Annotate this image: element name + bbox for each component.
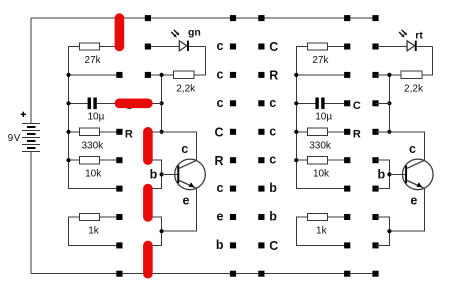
resistor R4 1k — [80, 213, 100, 220]
resistor R5 2.2k — [173, 71, 194, 78]
wire right supply rail — [296, 47, 344, 189]
svg-text:gn: gn — [188, 27, 201, 39]
jumper red row4 colA-colB — [119, 99, 147, 109]
socket pins column C2 — [258, 15, 264, 21]
svg-text:27k: 27k — [85, 55, 102, 66]
wire rail stub to pin row3 right — [296, 74, 344, 76]
jumper red col B row9-row10 — [143, 245, 153, 273]
svg-text:27k: 27k — [312, 55, 329, 66]
svg-text:c: c — [269, 124, 276, 138]
svg-text:b: b — [269, 181, 277, 195]
wire LED cathode down to 2.2k — [194, 47, 205, 75]
svg-text:c: c — [181, 142, 188, 156]
svg-text:c: c — [409, 142, 416, 156]
resistor R7 330k — [307, 128, 327, 135]
wire stub pin to chain row4 right — [376, 102, 390, 104]
svg-text:c: c — [269, 96, 276, 110]
svg-text:c: c — [217, 181, 224, 195]
socket pins column A — [116, 15, 122, 21]
wire base staircase — [148, 160, 162, 188]
resistor R8 10k — [307, 157, 327, 164]
wire stub pin to chain row5 — [148, 131, 162, 133]
node chain junctions right — [387, 73, 391, 77]
svg-text:C: C — [269, 40, 278, 54]
svg-text:330k: 330k — [81, 140, 104, 151]
node base junction right — [387, 172, 391, 176]
resistor R10 2.2k — [401, 71, 422, 78]
resistor R2 330k — [80, 128, 100, 135]
transistor Q1 — [162, 159, 206, 190]
resistor R1 27k — [80, 43, 100, 50]
svg-text:1k: 1k — [316, 226, 328, 237]
svg-text:R: R — [353, 129, 361, 141]
svg-text:10k: 10k — [85, 169, 102, 180]
resistor R6 27k — [307, 43, 327, 50]
svg-text:10k: 10k — [313, 169, 330, 180]
socket pins column B — [145, 15, 151, 21]
svg-text:e: e — [410, 194, 417, 208]
svg-text:b: b — [216, 238, 224, 252]
svg-text:e: e — [183, 194, 190, 208]
node emitter junction right — [387, 229, 391, 233]
jumper red col A row1-row2 — [115, 18, 125, 46]
wire emitter staircase — [162, 188, 197, 231]
svg-text:1k: 1k — [88, 226, 100, 237]
socket pins column D — [344, 15, 350, 21]
svg-text:9V: 9V — [8, 133, 21, 144]
resistor R9 1k — [307, 213, 327, 220]
label battery plus — [21, 112, 26, 117]
jumper red col B row7-row8 — [143, 189, 153, 217]
svg-text:C: C — [353, 100, 361, 112]
svg-text:C: C — [269, 239, 278, 253]
wire stub pin to chain row4 — [148, 102, 162, 104]
svg-text:b: b — [377, 167, 385, 181]
svg-text:c: c — [217, 39, 224, 53]
wire chain to collector right — [389, 132, 424, 161]
LED D2 emission arrows — [399, 30, 407, 38]
svg-text:c: c — [217, 96, 224, 110]
wire bottom rail 0V — [31, 273, 375, 275]
svg-text:R: R — [269, 69, 278, 83]
svg-text:c: c — [269, 153, 276, 167]
LED D1 emission arrows — [171, 30, 179, 38]
jumper red col B row5-row6 — [143, 132, 153, 160]
svg-text:10µ: 10µ — [87, 112, 104, 123]
svg-text:c: c — [217, 67, 224, 81]
LED D2 red — [376, 41, 433, 51]
svg-text:b: b — [150, 167, 158, 181]
wire collector chain vertical — [161, 75, 163, 132]
node rail junctions left — [66, 73, 70, 77]
svg-text:330k: 330k — [309, 140, 332, 151]
svg-text:e: e — [217, 210, 224, 224]
wire collector chain vertical right — [388, 75, 390, 132]
node rail junctions right — [294, 73, 298, 77]
transistor Q2 — [389, 159, 433, 190]
socket pins column E — [372, 15, 378, 21]
wire 1k hook to pins — [69, 217, 117, 245]
wire left supply rail — [69, 47, 117, 189]
resistor R3 10k — [80, 157, 100, 164]
wire stub pin to chain row5 right — [376, 131, 390, 133]
svg-text:b: b — [269, 210, 277, 224]
LED D1 green — [148, 41, 206, 51]
wire chain to collector — [162, 132, 197, 161]
node chain junctions — [160, 73, 164, 77]
svg-text:10µ: 10µ — [315, 112, 332, 123]
wire rail stub to pin row3 — [69, 74, 117, 76]
svg-text:rt: rt — [415, 30, 423, 42]
wire 1k hook to pins right — [296, 217, 344, 245]
wire top rail +9V — [31, 17, 375, 19]
node emitter junction — [160, 229, 164, 233]
svg-text:R: R — [214, 154, 223, 168]
svg-text:R: R — [125, 129, 133, 141]
wire emitter staircase right — [389, 188, 424, 231]
socket pins column C1 — [230, 15, 236, 21]
capacitor C1 10u — [69, 98, 162, 110]
wire base staircase right — [376, 160, 390, 188]
svg-text:C: C — [214, 126, 223, 140]
svg-text:2,2k: 2,2k — [176, 83, 196, 94]
svg-text:2,2k: 2,2k — [404, 83, 424, 94]
node base junction — [160, 172, 164, 176]
battery BAT1 9V — [22, 18, 40, 274]
wire LED cathode down to 2.2k right — [422, 47, 432, 75]
capacitor C2 10u — [296, 98, 344, 110]
